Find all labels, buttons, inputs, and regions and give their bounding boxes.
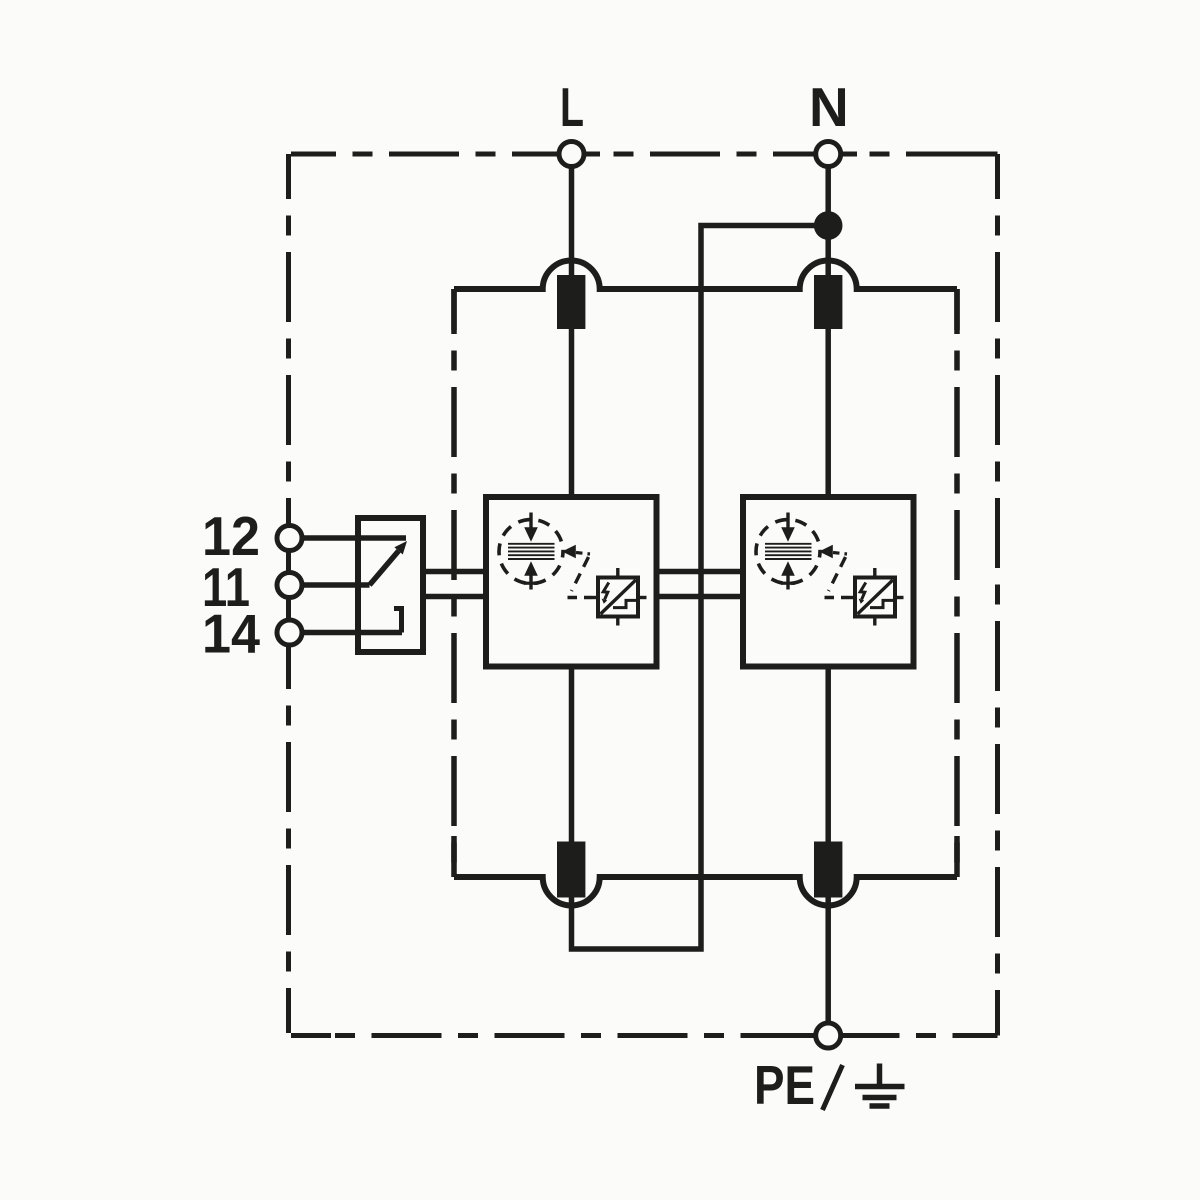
svg-text:N: N xyxy=(809,76,849,138)
svg-text:L: L xyxy=(560,76,584,138)
svg-text:14: 14 xyxy=(202,603,260,665)
svg-text:PE: PE xyxy=(754,1054,815,1116)
